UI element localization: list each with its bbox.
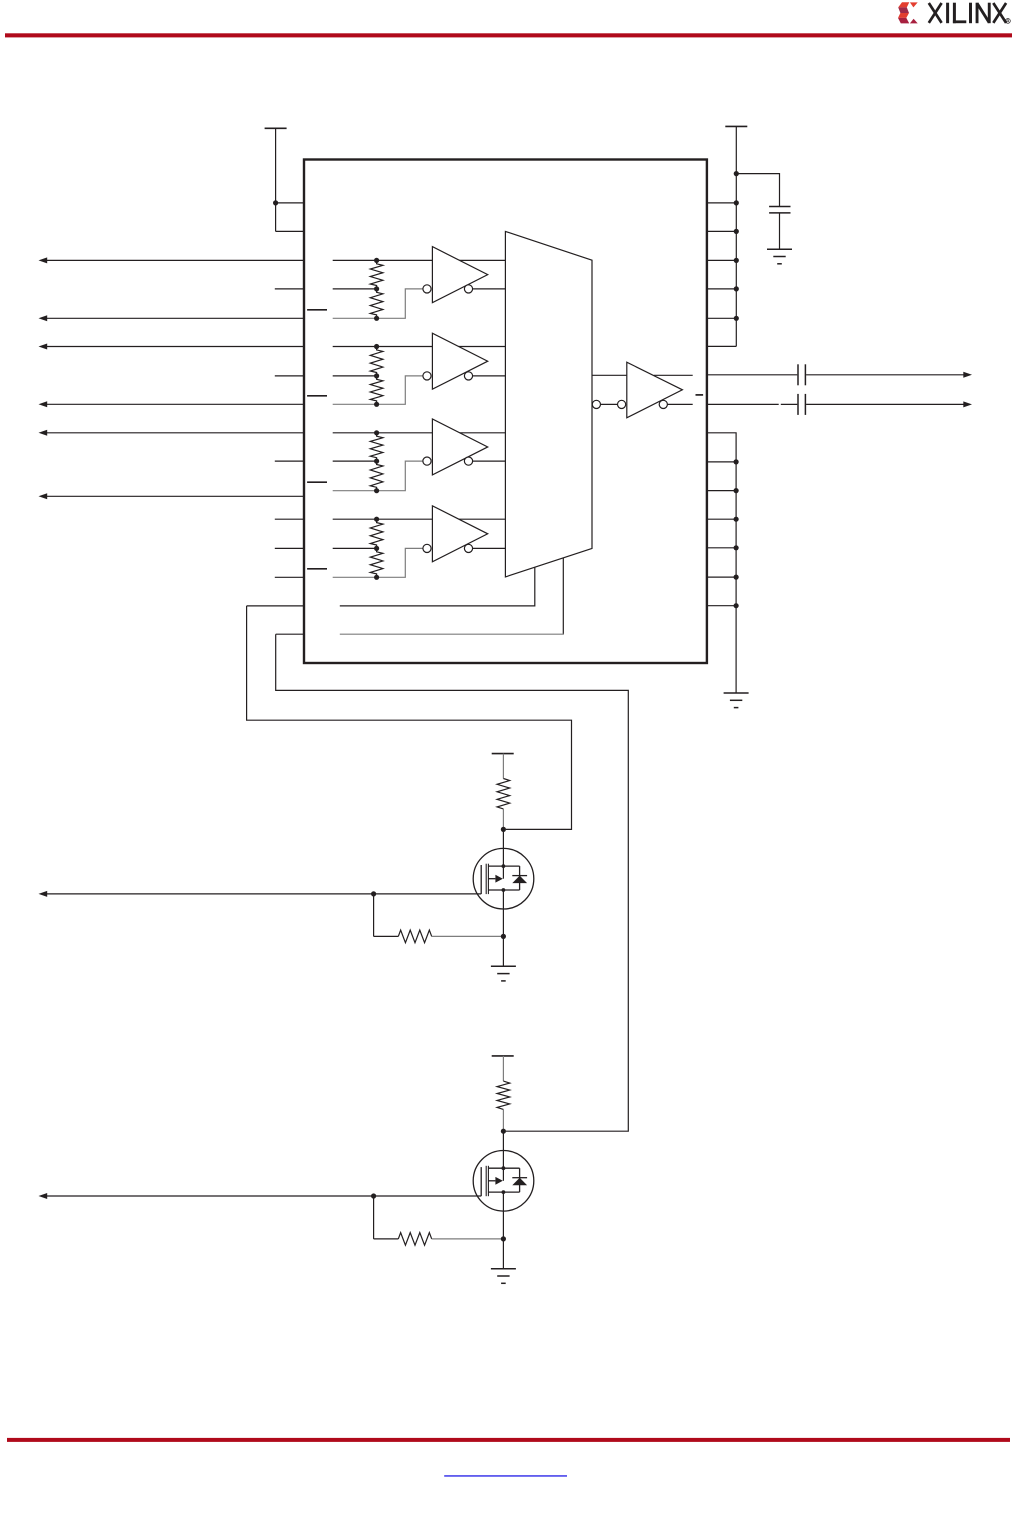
mux M1 body bbox=[505, 231, 592, 577]
wire VCC rail to pin VCC6 bbox=[707, 345, 736, 347]
resistor R0a (divider top) bbox=[370, 260, 383, 289]
node GND rail pin 3 bbox=[734, 488, 739, 493]
resistor R1b (divider bottom) bbox=[370, 376, 383, 404]
node GND rail pin 6 bbox=[734, 575, 739, 580]
wire receiver1 noninverting input bbox=[333, 346, 506, 348]
wire Q1 source bbox=[502, 890, 504, 936]
node R2 top bbox=[374, 430, 379, 435]
node R2 bottom bbox=[374, 488, 379, 493]
Xilinx logo text bbox=[929, 3, 1011, 24]
wire GND rail elbow to pin GND1 bbox=[707, 433, 736, 693]
node Q2 drain bbox=[501, 1129, 506, 1134]
wire Q2 pull-up bottom (gray) bbox=[502, 1109, 504, 1131]
node R3 top bbox=[374, 517, 379, 522]
wire receiver1 inverting input (gray jog) bbox=[333, 376, 423, 404]
wire Q1 pull-up bottom (gray) bbox=[502, 809, 504, 830]
receiver U3 inverted output bubble bbox=[464, 544, 472, 552]
node VCC rail pin 3 bbox=[734, 258, 739, 263]
wire Q output net bbox=[707, 374, 797, 376]
node R1 tap bbox=[374, 373, 379, 378]
receiver U2 inverting input bubble bbox=[423, 457, 431, 465]
VCC supply symbol (top left) bbox=[265, 128, 287, 231]
node GND rail pin 2 bbox=[734, 459, 739, 464]
resistor R0b (divider bottom) bbox=[370, 289, 383, 318]
node VCC rail pin 4 bbox=[734, 286, 739, 291]
wire QB output to pin bbox=[667, 403, 692, 405]
wire mux select S1 (internal, gray) bbox=[340, 633, 564, 635]
ground (bypass cap) bbox=[767, 249, 792, 264]
output buffer U5 triangle bbox=[627, 362, 683, 418]
wire CLK2B input (left arrow) bbox=[39, 493, 305, 499]
wire receiver2 inverting input (gray jog) bbox=[333, 461, 423, 491]
VCC supply symbol (top right) bbox=[725, 126, 747, 346]
wire GND rail to pin GND7 bbox=[707, 605, 736, 607]
wire VCC rail to pin VCC1 bbox=[707, 202, 736, 204]
wire GND rail to pin GND5 bbox=[707, 547, 736, 549]
wire receiver3 inverting input (gray jog) bbox=[333, 548, 423, 577]
wire mux select S0 (internal) bbox=[340, 567, 535, 606]
receiver U3 triangle bbox=[432, 506, 487, 562]
output buffer inverted output bubble bbox=[659, 400, 667, 408]
footer link underline bbox=[444, 1475, 567, 1476]
node VCC rail pin 5 bbox=[734, 316, 739, 321]
pin label dash CLK1B bbox=[307, 395, 327, 397]
capacitor C3 (QB coupling) bbox=[798, 394, 805, 415]
receiver U0 triangle bbox=[432, 247, 487, 303]
wire mux true output bbox=[592, 374, 627, 376]
node R2 tap bbox=[374, 459, 379, 464]
wire select S0 pin stub bbox=[247, 605, 304, 607]
wire Q1 pull-up top (gray) bbox=[502, 754, 504, 779]
wire R1d to source (gray) bbox=[432, 935, 504, 937]
wire receiver2 inverted output to mux bbox=[473, 460, 506, 462]
wire receiver0 noninverting input bbox=[333, 259, 506, 261]
wire select S0 net bbox=[247, 606, 572, 830]
node R1 top bbox=[374, 344, 379, 349]
resistor R3a (divider top) bbox=[370, 519, 383, 548]
footer rule bbox=[7, 1438, 1010, 1442]
resistor R2u (pull-up) bbox=[497, 1081, 510, 1109]
wire QB output to arrow bbox=[806, 401, 972, 407]
transistor Q2 bbox=[473, 1151, 534, 1212]
wire CLK2 input (left arrow) bbox=[39, 430, 305, 436]
wire receiver0 inverting input (gray jog) bbox=[333, 289, 423, 318]
wire R2d to source (gray) bbox=[432, 1238, 504, 1240]
wire Q2 source bbox=[502, 1192, 504, 1239]
wire receiver0 inverted output to mux bbox=[473, 288, 506, 290]
output buffer inverting input bubble bbox=[618, 400, 626, 408]
wire VREF2 tap bbox=[333, 460, 377, 462]
node Q2 gate divider bbox=[371, 1193, 376, 1198]
wire QB output net bbox=[707, 403, 797, 405]
node GND rail pin 5 bbox=[734, 545, 739, 550]
wire bypass branch bbox=[736, 174, 779, 207]
wire Q1 gate input (left arrow) bbox=[39, 891, 482, 897]
mux inverted output bubble bbox=[592, 400, 600, 408]
wire GND rail to pin GND2 bbox=[707, 461, 736, 463]
wire CLK0B input (left arrow) bbox=[39, 315, 305, 321]
wire C1 to ground bbox=[779, 213, 781, 249]
node R1 bottom bbox=[374, 402, 379, 407]
wire Q2 pull-up top (gray) bbox=[502, 1056, 504, 1081]
pin label dash QB bbox=[696, 394, 704, 396]
wire VREF0 tap bbox=[333, 288, 377, 290]
VCC supply symbol (Q1 pull-up) bbox=[492, 753, 514, 755]
node Q1 source bbox=[501, 934, 506, 939]
node VCC rail pin 1 bbox=[734, 200, 739, 205]
node R0 top bbox=[374, 258, 379, 263]
capacitor C1 (bypass) bbox=[769, 207, 790, 213]
receiver U2 triangle bbox=[432, 419, 487, 475]
wire VREF1 tap bbox=[333, 375, 377, 377]
wire receiver3 inverted output to mux bbox=[473, 547, 506, 549]
node on VCC feed bbox=[273, 200, 278, 205]
resistor R1u (pull-up) bbox=[497, 779, 510, 809]
wire CLK1 input (left arrow) bbox=[39, 344, 305, 350]
resistor R2b (divider bottom) bbox=[370, 461, 383, 491]
wire receiver1 inverted output to mux bbox=[473, 375, 506, 377]
receiver U1 triangle bbox=[432, 333, 487, 389]
node Q1 gate divider bbox=[371, 891, 376, 896]
wire select S1 net bbox=[276, 634, 629, 1131]
receiver U2 inverted output bubble bbox=[464, 457, 472, 465]
wire Q output to pin bbox=[654, 374, 693, 376]
wire Q2 gate pulldown drop bbox=[373, 1196, 375, 1239]
capacitor C2 (Q coupling) bbox=[798, 364, 805, 385]
node R3 bottom bbox=[374, 575, 379, 580]
wire Q2 source to ground bbox=[502, 1239, 504, 1269]
wire VCC rail to pin VCC4 bbox=[707, 288, 736, 290]
wire receiver3 noninverting input bbox=[333, 518, 506, 520]
wire Q2 gate input (left arrow) bbox=[39, 1193, 482, 1199]
wire Q output to arrow bbox=[806, 372, 972, 378]
node R3 tap bbox=[374, 546, 379, 551]
resistor R1d (gate pulldown) bbox=[398, 930, 431, 943]
wire VREF3 tap bbox=[333, 547, 377, 549]
transistor Q1 bbox=[473, 848, 534, 909]
wire VCC to pin VDD1 bbox=[276, 202, 304, 204]
node GND rail pin 4 bbox=[734, 517, 739, 522]
resistor R2d (gate pulldown) bbox=[398, 1233, 431, 1246]
resistor R1a (divider top) bbox=[370, 347, 383, 376]
receiver U3 inverting input bubble bbox=[423, 544, 431, 552]
node VCC rail pin 2 bbox=[734, 229, 739, 234]
pin stub VREF3 bbox=[275, 547, 304, 549]
wire receiver2 noninverting input bbox=[333, 432, 506, 434]
IC U1 body bbox=[304, 160, 707, 664]
ground (Q1 source) bbox=[491, 966, 516, 981]
ground (Q2 source) bbox=[491, 1269, 516, 1284]
receiver U1 inverted output bubble bbox=[464, 372, 472, 380]
header rule bbox=[5, 33, 1012, 37]
node Q2 source bbox=[501, 1236, 506, 1241]
Xilinx logo icon bbox=[898, 2, 918, 23]
wire GND rail to pin GND4 bbox=[707, 518, 736, 520]
wire Q1 gate pulldown drop bbox=[373, 894, 375, 937]
wire Q1 pulldown lead bbox=[374, 935, 399, 937]
pin stub VREF2 bbox=[275, 460, 304, 462]
node VCC rail / bypass tap bbox=[734, 171, 739, 176]
node GND rail pin 7 bbox=[734, 603, 739, 608]
wire mux select S1 drop (internal) bbox=[562, 558, 564, 634]
receiver U0 inverting input bubble bbox=[423, 285, 431, 293]
wire mux inverted output bbox=[601, 403, 618, 405]
wire Q2 drain bbox=[502, 1131, 504, 1181]
wire Q1 drain bbox=[502, 829, 504, 878]
pin label dash CLK0B bbox=[307, 309, 327, 311]
wire select S1 pin stub bbox=[276, 633, 304, 635]
wire Q2 pulldown lead bbox=[374, 1238, 399, 1240]
wire CLK0 input (left arrow) bbox=[39, 257, 305, 263]
pin label dash CLK3B bbox=[307, 568, 327, 570]
wire VCC rail to pin VCC5 bbox=[707, 317, 736, 319]
wire GND rail to pin GND6 bbox=[707, 576, 736, 578]
VCC supply symbol (Q2 pull-up) bbox=[492, 1055, 514, 1057]
pin stub VREF1 bbox=[275, 375, 304, 377]
node R0 bottom bbox=[374, 316, 379, 321]
receiver U1 inverting input bubble bbox=[423, 372, 431, 380]
wire CLK1B input (left arrow) bbox=[39, 401, 305, 407]
node Q1 drain bbox=[501, 827, 506, 832]
receiver U0 inverted output bubble bbox=[464, 285, 472, 293]
ground (IC GND rail) bbox=[724, 693, 749, 708]
pin stub CLK3B bbox=[275, 576, 304, 578]
pin stub CLK3 bbox=[275, 518, 304, 520]
resistor R2a (divider top) bbox=[370, 433, 383, 461]
node R0 tap bbox=[374, 286, 379, 291]
pin label dash CLK2B bbox=[307, 481, 327, 483]
wire VCC rail to pin VCC3 bbox=[707, 259, 736, 261]
wire VCC to pin VDD2 bbox=[276, 230, 304, 232]
resistor R3b (divider bottom) bbox=[370, 548, 383, 577]
wire VCC rail to pin VCC2 bbox=[707, 230, 736, 232]
pin stub VREF0 bbox=[275, 288, 304, 290]
wire GND rail to pin GND3 bbox=[707, 490, 736, 492]
wire Q1 source to ground bbox=[502, 936, 504, 966]
